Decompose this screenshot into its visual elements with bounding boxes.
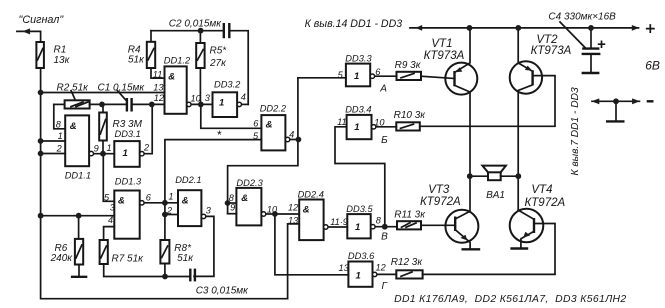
svg-text:&: &	[182, 195, 189, 206]
svg-text:*: *	[217, 128, 222, 142]
svg-text:1: 1	[123, 148, 128, 159]
svg-text:8: 8	[376, 216, 382, 226]
svg-text:&: &	[303, 205, 310, 216]
svg-text:К выв.14 DD1 - DD3: К выв.14 DD1 - DD3	[305, 18, 403, 30]
svg-text:&: &	[266, 120, 273, 131]
svg-text:R12 3к: R12 3к	[391, 257, 424, 268]
svg-text:3: 3	[110, 202, 116, 212]
svg-text:КТ973А: КТ973А	[531, 45, 572, 57]
svg-text:6: 6	[253, 119, 259, 129]
svg-text:51к: 51к	[128, 54, 145, 65]
svg-text:КТ972А: КТ972А	[420, 196, 461, 208]
svg-text:13: 13	[153, 82, 164, 92]
svg-text:DD3.1: DD3.1	[115, 129, 141, 139]
svg-text:9: 9	[230, 203, 235, 213]
svg-text:DD3.2: DD3.2	[214, 80, 241, 90]
svg-text:1: 1	[219, 98, 224, 109]
svg-text:6: 6	[146, 193, 152, 203]
svg-text:&: &	[70, 121, 77, 132]
svg-text:2: 2	[166, 206, 172, 216]
svg-text:12: 12	[376, 262, 386, 272]
svg-text:DD2.4: DD2.4	[298, 190, 324, 200]
svg-text:2: 2	[56, 144, 62, 154]
svg-text:C3 0,015мк: C3 0,015мк	[196, 286, 249, 297]
svg-text:5: 5	[253, 131, 259, 141]
svg-text:DD3.6: DD3.6	[348, 251, 375, 261]
svg-text:11: 11	[337, 117, 347, 127]
svg-text:27к: 27к	[209, 58, 227, 69]
svg-text:51к: 51к	[177, 253, 194, 264]
svg-text:R1: R1	[54, 45, 67, 56]
svg-text:13: 13	[339, 263, 350, 273]
svg-text:1: 1	[107, 143, 112, 153]
svg-text:8: 8	[56, 119, 62, 129]
svg-text:1: 1	[356, 270, 361, 281]
svg-text:2: 2	[143, 142, 149, 152]
svg-text:R2 51к: R2 51к	[57, 83, 90, 94]
svg-text:DD3.3: DD3.3	[345, 54, 372, 64]
svg-text:1: 1	[354, 122, 359, 133]
svg-text:BA1: BA1	[486, 190, 505, 201]
svg-text:DD2.2: DD2.2	[260, 104, 287, 114]
svg-text:5: 5	[338, 70, 344, 80]
svg-text:13: 13	[288, 216, 299, 226]
svg-text:DD1.3: DD1.3	[115, 176, 142, 186]
svg-text:R7 51к: R7 51к	[112, 254, 145, 265]
svg-text:3: 3	[205, 93, 211, 103]
svg-text:1: 1	[58, 131, 63, 141]
svg-text:C2 0,015мк: C2 0,015мк	[169, 19, 222, 30]
svg-text:6: 6	[375, 67, 381, 77]
svg-text:4: 4	[241, 92, 246, 102]
svg-text:К выв.7 DD1 - DD3: К выв.7 DD1 - DD3	[570, 87, 581, 175]
svg-text:R10 3к: R10 3к	[394, 110, 427, 121]
svg-text:Г: Г	[382, 281, 389, 292]
svg-text:9: 9	[94, 144, 99, 154]
svg-text:DD2.3: DD2.3	[236, 178, 263, 188]
svg-text:5: 5	[104, 193, 110, 203]
svg-text:3: 3	[206, 206, 212, 216]
svg-text:"Сигнал": "Сигнал"	[19, 14, 65, 26]
svg-text:Б: Б	[381, 135, 388, 146]
svg-text:10: 10	[374, 118, 385, 128]
svg-text:C4 330мк×16В: C4 330мк×16В	[548, 12, 616, 23]
svg-text:C1 0,15мк: C1 0,15мк	[98, 83, 146, 94]
svg-text:В: В	[381, 232, 388, 243]
svg-text:&: &	[168, 72, 175, 83]
svg-text:VT3: VT3	[428, 184, 450, 196]
svg-text:8: 8	[229, 193, 235, 203]
svg-text:13к: 13к	[54, 55, 71, 66]
svg-text:4: 4	[108, 215, 113, 225]
svg-text:VT1: VT1	[431, 38, 452, 50]
svg-text:4: 4	[289, 129, 294, 139]
svg-text:VT4: VT4	[531, 184, 552, 196]
svg-text:А: А	[379, 84, 387, 95]
svg-text:КТ973А: КТ973А	[424, 50, 465, 62]
svg-text:DD1.2: DD1.2	[164, 56, 191, 66]
svg-text:240к: 240к	[50, 253, 74, 264]
svg-text:R11 3к: R11 3к	[394, 210, 426, 221]
svg-text:R5*: R5*	[210, 46, 228, 57]
svg-text:11: 11	[153, 69, 163, 79]
svg-text:1: 1	[354, 71, 359, 82]
svg-text:11·9: 11·9	[330, 217, 348, 227]
svg-text:12: 12	[288, 203, 298, 213]
svg-text:DD3.4: DD3.4	[345, 105, 371, 115]
svg-text:6В: 6В	[645, 58, 660, 72]
svg-text:КТ972А: КТ972А	[525, 197, 566, 209]
svg-text:DD2.1: DD2.1	[175, 175, 201, 185]
svg-text:DD1.1: DD1.1	[65, 171, 91, 181]
svg-text:10: 10	[267, 205, 278, 215]
svg-text:DD1 К176ЛА9, DD2 К561ЛА7, DD: DD1 К176ЛА9, DD2 К561ЛА7, DD3 К561ЛН2	[394, 294, 626, 305]
svg-text:1: 1	[168, 192, 173, 202]
svg-text:&: &	[118, 195, 125, 206]
svg-text:&: &	[241, 193, 248, 204]
svg-text:10: 10	[191, 94, 202, 104]
svg-text:1: 1	[355, 222, 360, 233]
svg-text:12: 12	[154, 93, 164, 103]
svg-text:DD3.5: DD3.5	[346, 204, 373, 214]
svg-text:R9 3к: R9 3к	[395, 60, 422, 71]
